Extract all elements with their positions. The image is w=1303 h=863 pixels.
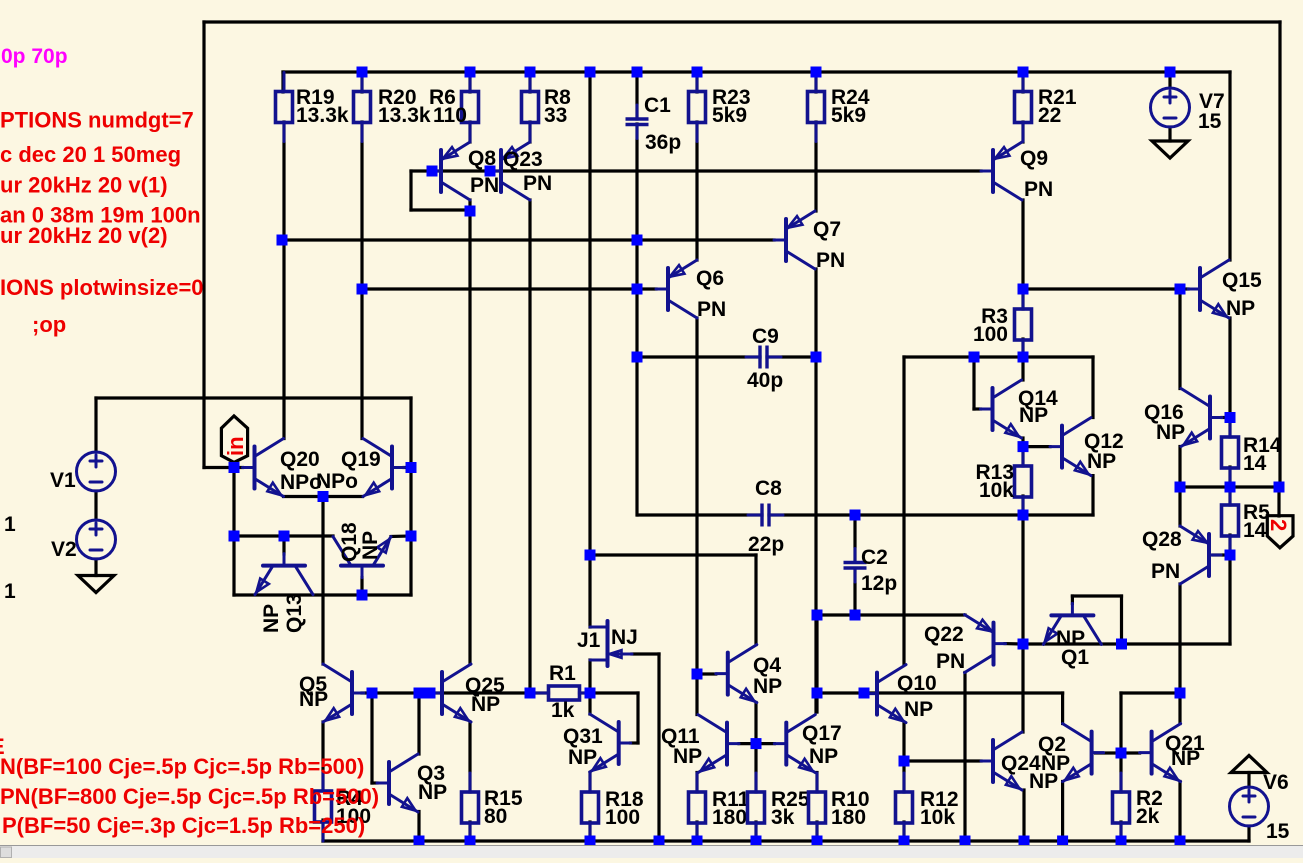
- jfet J1: [577, 621, 638, 666]
- junction: [1175, 284, 1186, 295]
- wire Q14 base wire: [974, 407, 981, 410]
- wire to Q12 base: [1023, 445, 1050, 448]
- wire Q23 collector to R1 node: [528, 200, 531, 693]
- transistor Q31: [590, 714, 631, 772]
- junction: [1225, 412, 1236, 423]
- wire node to R25: [754, 744, 757, 792]
- transistor Q4: [716, 645, 757, 703]
- wire C2 top lead: [853, 515, 856, 562]
- svg-text:36p: 36p: [645, 131, 681, 154]
- svg-text:100: 100: [605, 806, 640, 829]
- junction: [367, 688, 378, 699]
- wire Q21 emitter to rail: [1178, 782, 1181, 842]
- wire Q17 collector rail to Q2 collector: [817, 691, 1063, 694]
- wire Q28 base wire: [1213, 553, 1230, 556]
- junction: [525, 67, 536, 78]
- junction: [1225, 550, 1236, 561]
- wire Q3 base wire: [372, 781, 377, 784]
- junction: [357, 590, 368, 601]
- junction: [1018, 510, 1029, 521]
- svg-text:Q15: Q15: [1222, 269, 1262, 292]
- wire down to Q16 collector: [1178, 289, 1181, 389]
- wire Q8 diode box bottom: [411, 208, 470, 211]
- wire R23 top lead: [695, 72, 698, 92]
- wire Q8 Q23 base rail to Q9 base: [432, 169, 981, 172]
- wire Q21 collector link: [1121, 691, 1180, 694]
- junction: [850, 510, 861, 521]
- svg-text:Q6: Q6: [696, 267, 724, 290]
- resistor R12: [896, 773, 959, 842]
- svg-text:NP: NP: [1019, 404, 1048, 427]
- wire Q19 base stub wire: [404, 466, 411, 469]
- resistor R1: [531, 662, 591, 722]
- junction: [1018, 639, 1029, 650]
- svg-text:NP: NP: [299, 688, 328, 711]
- wire Q1 base loop down: [1120, 596, 1123, 644]
- transistor Q22: [965, 615, 1006, 673]
- wire J1 gate to V- rail: [657, 654, 660, 841]
- transistor Q21: [1140, 724, 1181, 782]
- junction: [812, 610, 823, 621]
- wire Q22 base wire: [1005, 642, 1023, 646]
- svg-text:Q1: Q1: [1061, 646, 1089, 669]
- svg-text:ur 20kHz 20 v(2): ur 20kHz 20 v(2): [0, 223, 168, 248]
- wire input cell bottom: [234, 593, 411, 596]
- transistor Q5: [323, 664, 364, 722]
- wire Q1 base loop top: [1072, 594, 1121, 597]
- wire R14 to R5: [1228, 467, 1231, 505]
- wire input node to Q20 base: [234, 466, 243, 469]
- wire J1 drain column: [588, 72, 591, 627]
- junction: [654, 836, 665, 847]
- junction: [1225, 482, 1236, 493]
- svg-text:NP: NP: [418, 781, 447, 804]
- voltage source V2: [51, 520, 116, 561]
- wire R18 bottom lead: [588, 822, 591, 841]
- svg-text:15: 15: [1198, 110, 1222, 133]
- svg-text:PN: PN: [1024, 178, 1053, 201]
- junction: [1175, 836, 1186, 847]
- wire R8 to Q23 emitter: [528, 122, 531, 142]
- svg-text:12p: 12p: [861, 572, 897, 595]
- wire C1 top lead: [635, 72, 638, 119]
- wire R2 bottom lead: [1119, 822, 1122, 841]
- junction: [751, 836, 762, 847]
- wire Q9 collector to R3: [1021, 200, 1024, 309]
- resistor R8: [522, 73, 572, 142]
- junction: [1116, 836, 1127, 847]
- svg-text:C1: C1: [644, 94, 671, 117]
- svg-text:PN: PN: [470, 174, 499, 197]
- svg-text:33: 33: [544, 104, 567, 127]
- resistor R3: [973, 290, 1032, 359]
- transistor Q13: [255, 554, 313, 595]
- wire Q3 emitter to rail: [417, 812, 420, 842]
- wire R8 top lead: [528, 72, 531, 92]
- svg-text:NP: NP: [1087, 450, 1116, 473]
- wire C9 left lead: [637, 355, 760, 358]
- wire Q5 emitter to R4: [321, 722, 324, 790]
- wire R1 left lead: [530, 691, 549, 694]
- resistor R4: [315, 772, 372, 841]
- junction: [414, 836, 425, 847]
- svg-text:Q28: Q28: [1142, 528, 1182, 551]
- wire R19 to Q20 collector: [282, 122, 285, 439]
- wire C1 bottom column: [635, 124, 638, 515]
- wire Q31 emitter to R18: [588, 773, 591, 793]
- wire Q22 base rail: [1023, 642, 1230, 645]
- junction: [465, 836, 476, 847]
- wire Q24 base wire: [904, 759, 981, 762]
- wire C8 right rail: [769, 513, 1093, 516]
- svg-text:C8: C8: [755, 477, 782, 500]
- wire V2 to ground: [94, 559, 97, 576]
- svg-text:NP: NP: [1171, 747, 1200, 770]
- wire Q10 collector column: [902, 357, 905, 665]
- svg-text:IONS plotwinsize=0: IONS plotwinsize=0: [0, 275, 204, 300]
- svg-text:3k: 3k: [771, 806, 795, 829]
- transistor Q14: [981, 380, 1022, 438]
- wire Q24 emitter to rail: [1022, 790, 1025, 841]
- resistor R10: [809, 773, 870, 842]
- svg-text:PN: PN: [523, 172, 552, 195]
- svg-text:1k: 1k: [551, 699, 575, 722]
- wire Q31 base wire: [631, 741, 639, 744]
- junction: [318, 491, 329, 502]
- transistor Q8: [429, 142, 470, 200]
- wire J1 gate wire: [632, 652, 659, 655]
- resistor R6: [429, 73, 479, 142]
- transistor Q7: [774, 211, 815, 269]
- junction: [465, 206, 476, 217]
- wire Q10 emitter to R12: [902, 723, 905, 793]
- junction: [425, 688, 436, 699]
- svg-text:NP: NP: [904, 698, 933, 721]
- wire R13 bottom lead: [1021, 496, 1024, 515]
- wire Q2 Q21 base to R2: [1119, 693, 1122, 792]
- junction: [632, 284, 643, 295]
- svg-text:Q23: Q23: [503, 148, 543, 171]
- svg-text:100: 100: [973, 323, 1008, 346]
- junction: [414, 688, 425, 699]
- wire to Q6 base: [362, 287, 656, 290]
- svg-text:14: 14: [1243, 452, 1267, 475]
- svg-text:5k9: 5k9: [712, 104, 747, 127]
- wire node to Q7 base: [282, 238, 774, 241]
- wire column to Q17 collector: [815, 615, 818, 712]
- wire R5 bottom lead: [1228, 535, 1231, 555]
- wire Q12 emitter down: [1091, 476, 1094, 515]
- wire V6 top lead: [1247, 773, 1250, 788]
- svg-text:Q13: Q13: [283, 593, 306, 633]
- svg-text:14: 14: [1243, 519, 1267, 542]
- wire Q28 emitter up: [1178, 487, 1181, 526]
- svg-text:NP: NP: [1041, 752, 1070, 775]
- svg-text:;op: ;op: [32, 312, 66, 337]
- wire output node rail: [1180, 485, 1279, 488]
- resistor R20: [354, 73, 431, 142]
- wire Q2 emitter to rail: [1061, 782, 1064, 842]
- svg-text:Q7: Q7: [813, 218, 841, 241]
- junction: [585, 836, 596, 847]
- wire Q16 base wire: [1222, 416, 1230, 419]
- wire mirror node to Q18 collector: [234, 534, 333, 537]
- junction: [229, 462, 240, 473]
- voltage source V6: [1230, 771, 1290, 843]
- junction: [751, 738, 762, 749]
- wire top feedback rail: [204, 20, 1280, 23]
- wire Q13 base lead: [282, 536, 285, 554]
- junction: [632, 235, 643, 246]
- wire Q22 collector to rail: [963, 673, 966, 842]
- wire Q25 emitter to R15: [468, 722, 471, 792]
- wire R19 top lead: [281, 72, 284, 92]
- wire R15 bottom lead: [468, 822, 471, 841]
- resistor R5: [1222, 486, 1271, 555]
- capacitor C8: [748, 477, 784, 556]
- junction: [406, 531, 417, 542]
- wire V1 to V2: [94, 491, 97, 520]
- junction: [1019, 836, 1030, 847]
- wire Q11 Q17 base node: [739, 742, 774, 745]
- junction: [277, 235, 288, 246]
- svg-text:Q18: Q18: [338, 522, 361, 562]
- wire right side of input cell: [409, 468, 412, 596]
- wire R4 bottom lead: [321, 820, 324, 841]
- wire C9 right lead: [767, 355, 816, 358]
- wire Q2 Q21 base wires: [1096, 751, 1140, 754]
- transistor Q10: [865, 665, 906, 723]
- wire R13 to Q24 collector column: [1021, 515, 1024, 732]
- wire Q16 emitter down: [1178, 447, 1181, 488]
- svg-text:in: in: [223, 436, 248, 456]
- transistor Q6: [656, 260, 697, 318]
- svg-text:NP: NP: [359, 531, 382, 560]
- wire R1 right lead: [580, 691, 591, 694]
- transistor Q17: [774, 715, 815, 773]
- wire J1 source to Q31 collector: [588, 660, 591, 714]
- svg-text:22p: 22p: [748, 533, 784, 556]
- wire Q6 collector to Q11 collector: [695, 318, 698, 715]
- resistor R14: [1222, 418, 1282, 487]
- svg-text:5k9: 5k9: [831, 104, 866, 127]
- wire R20 to Q19 collector: [360, 122, 363, 439]
- svg-text:NP: NP: [1156, 421, 1185, 444]
- wire Q14 emitter to R13: [1021, 438, 1024, 466]
- junction: [485, 166, 496, 177]
- wire R25 bottom lead: [754, 822, 757, 841]
- wire Q15 emitter to R14: [1228, 318, 1231, 437]
- wire V7 top lead: [1168, 72, 1171, 88]
- svg-text:NP: NP: [753, 675, 782, 698]
- svg-text:V1: V1: [50, 469, 76, 492]
- wire Q20 Q19 emitters: [284, 495, 363, 498]
- wire V7 bottom lead: [1168, 127, 1171, 141]
- wire Q10 collector rail: [904, 355, 1093, 358]
- wire Q8 collector to Q25 collector: [468, 211, 471, 664]
- transistor Q15: [1188, 260, 1229, 318]
- svg-text:C2: C2: [861, 546, 888, 569]
- wire R12 bottom lead: [902, 822, 905, 841]
- svg-text:NP: NP: [1226, 297, 1255, 320]
- wire Q4 base wire: [697, 672, 716, 675]
- wire R21 to Q9 emitter: [1021, 122, 1024, 142]
- svg-text:13.3k: 13.3k: [296, 104, 349, 127]
- junction: [960, 836, 971, 847]
- wire V6 bottom lead: [1247, 826, 1250, 841]
- transistor Q20: [243, 439, 284, 497]
- junction: [899, 836, 910, 847]
- svg-text:c dec 20 1 50meg: c dec 20 1 50meg: [0, 142, 181, 167]
- svg-text:C9: C9: [752, 325, 779, 348]
- wire to Q19 base junction: [409, 398, 412, 468]
- wire Q5 base rail: [362, 691, 530, 694]
- svg-text:V2: V2: [51, 538, 77, 561]
- wire Q4 collector up: [754, 555, 757, 645]
- wire R10 bottom lead: [815, 822, 818, 841]
- wire R23 to Q6 emitter: [695, 122, 698, 260]
- ground under V7: [1152, 141, 1188, 158]
- svg-text:10k: 10k: [920, 806, 955, 829]
- junction: [1175, 688, 1186, 699]
- wire Q9 collector to Q15 base: [1023, 287, 1188, 290]
- resistor R25: [748, 773, 810, 842]
- svg-text:NP: NP: [260, 604, 283, 633]
- wire to input node: [204, 466, 234, 469]
- svg-text:22: 22: [1038, 104, 1061, 127]
- svg-text:13.3k: 13.3k: [378, 104, 431, 127]
- junction: [969, 352, 980, 363]
- resistor R23: [689, 73, 751, 142]
- wire left vertical to input node: [202, 22, 205, 468]
- junction: [1018, 67, 1029, 78]
- wire Q14 base drop: [972, 357, 975, 409]
- junction: [406, 462, 417, 473]
- svg-text:P(BF=50 Cje=.3p Cjc=1.5p Rb=25: P(BF=50 Cje=.3p Cjc=1.5p Rb=250): [2, 813, 365, 838]
- transistor Q25: [430, 664, 471, 722]
- svg-text:NP: NP: [809, 745, 838, 768]
- svg-text:40p: 40p: [747, 369, 783, 392]
- svg-text:N(BF=100 Cje=.5p Cjc=.5p Rb=50: N(BF=100 Cje=.5p Cjc=.5p Rb=500): [0, 754, 364, 779]
- capacitor C2: [844, 546, 898, 595]
- junction: [850, 610, 861, 621]
- svg-text:NPo: NPo: [316, 470, 358, 493]
- junction: [1116, 748, 1127, 759]
- junction: [1274, 482, 1285, 493]
- svg-text:Q10: Q10: [897, 672, 937, 695]
- wire Q8 collector stub: [468, 200, 471, 211]
- ground above V6: [1231, 756, 1267, 773]
- svg-text:2: 2: [1266, 519, 1291, 531]
- junction: [812, 688, 823, 699]
- junction: [1057, 836, 1068, 847]
- wire bus to Q15 collector: [1228, 72, 1231, 260]
- wire R20 top lead: [360, 72, 363, 92]
- svg-text:80: 80: [484, 805, 507, 828]
- wire Q28 collector to Q21 collector: [1178, 584, 1181, 724]
- wire Q1 base stub up: [1071, 596, 1074, 604]
- svg-text:180: 180: [831, 806, 866, 829]
- svg-text:ur 20kHz 20 v(1): ur 20kHz 20 v(1): [0, 173, 168, 198]
- wire R1 to Q31 base loop: [590, 691, 638, 694]
- resistor R24: [808, 73, 870, 142]
- transistor Q23: [489, 142, 530, 200]
- resistor R21: [1015, 73, 1077, 142]
- svg-text:NP: NP: [568, 746, 597, 769]
- svg-text:Q4: Q4: [753, 654, 781, 677]
- svg-text:Q17: Q17: [802, 722, 842, 745]
- node flag in: [221, 416, 248, 463]
- svg-text:0p 70p: 0p 70p: [1, 45, 68, 68]
- junction: [632, 67, 643, 78]
- junction: [811, 352, 822, 363]
- svg-text:NP: NP: [471, 693, 500, 716]
- transistor Q24: [981, 732, 1022, 790]
- svg-text:Q22: Q22: [924, 623, 964, 646]
- transistor Q3: [377, 754, 418, 812]
- wire right vertical to output node: [1278, 22, 1281, 487]
- wire Q7 collector down to Q17 collector: [814, 269, 817, 712]
- wire Q17 emitter to R10: [815, 773, 818, 793]
- junction: [427, 166, 438, 177]
- svg-text:NP: NP: [673, 745, 702, 768]
- junction: [229, 531, 240, 542]
- wire C2 bottom lead: [853, 569, 856, 615]
- wire Q11 emitter to R11: [695, 773, 698, 793]
- transistor Q18: [333, 537, 391, 578]
- voltage source V7: [1151, 88, 1225, 133]
- resistor R11: [689, 773, 750, 842]
- wire Q8 diode box vertical: [409, 171, 412, 210]
- junction: [1175, 482, 1186, 493]
- scrollbar strip: [0, 846, 1303, 859]
- wire R21 top lead: [1021, 72, 1024, 92]
- wire Q18 base lead: [360, 578, 363, 596]
- junction: [585, 550, 596, 561]
- svg-text:PTIONS numdgt=7: PTIONS numdgt=7: [0, 108, 194, 133]
- svg-text:R1: R1: [549, 662, 576, 685]
- wire J1 drain to Q4 collector: [590, 553, 756, 556]
- junction: [465, 67, 476, 78]
- svg-text:Q31: Q31: [563, 725, 603, 748]
- wire V1 top lead: [94, 398, 97, 452]
- wire V- rail: [323, 839, 1249, 842]
- wire Q8 base to box: [411, 169, 432, 172]
- transistor Q19: [363, 439, 404, 497]
- node flag 2 output: [1266, 516, 1293, 548]
- resistor R15: [462, 773, 523, 842]
- transistor Q12: [1050, 418, 1091, 476]
- junction: [859, 688, 870, 699]
- svg-text:Q19: Q19: [341, 448, 381, 471]
- capacitor C9: [746, 325, 783, 392]
- wire R11 bottom lead: [695, 822, 698, 841]
- junction: [692, 669, 703, 680]
- junction: [1165, 67, 1176, 78]
- wire to output flag: [1277, 487, 1280, 516]
- junction: [357, 284, 368, 295]
- wire R24 to Q7 emitter: [814, 122, 817, 211]
- wire V1 to Q19 base: [96, 396, 411, 399]
- voltage source V1: [50, 452, 116, 492]
- wire to Q12 collector: [1091, 357, 1094, 418]
- wire Q18 emitter to right side: [391, 534, 411, 538]
- transistor Q2: [1063, 724, 1104, 782]
- wire Q4 emitter to node: [754, 703, 757, 744]
- transistor Q28: [1180, 526, 1221, 584]
- junction: [1018, 352, 1029, 363]
- transistor Q1: [1043, 603, 1101, 644]
